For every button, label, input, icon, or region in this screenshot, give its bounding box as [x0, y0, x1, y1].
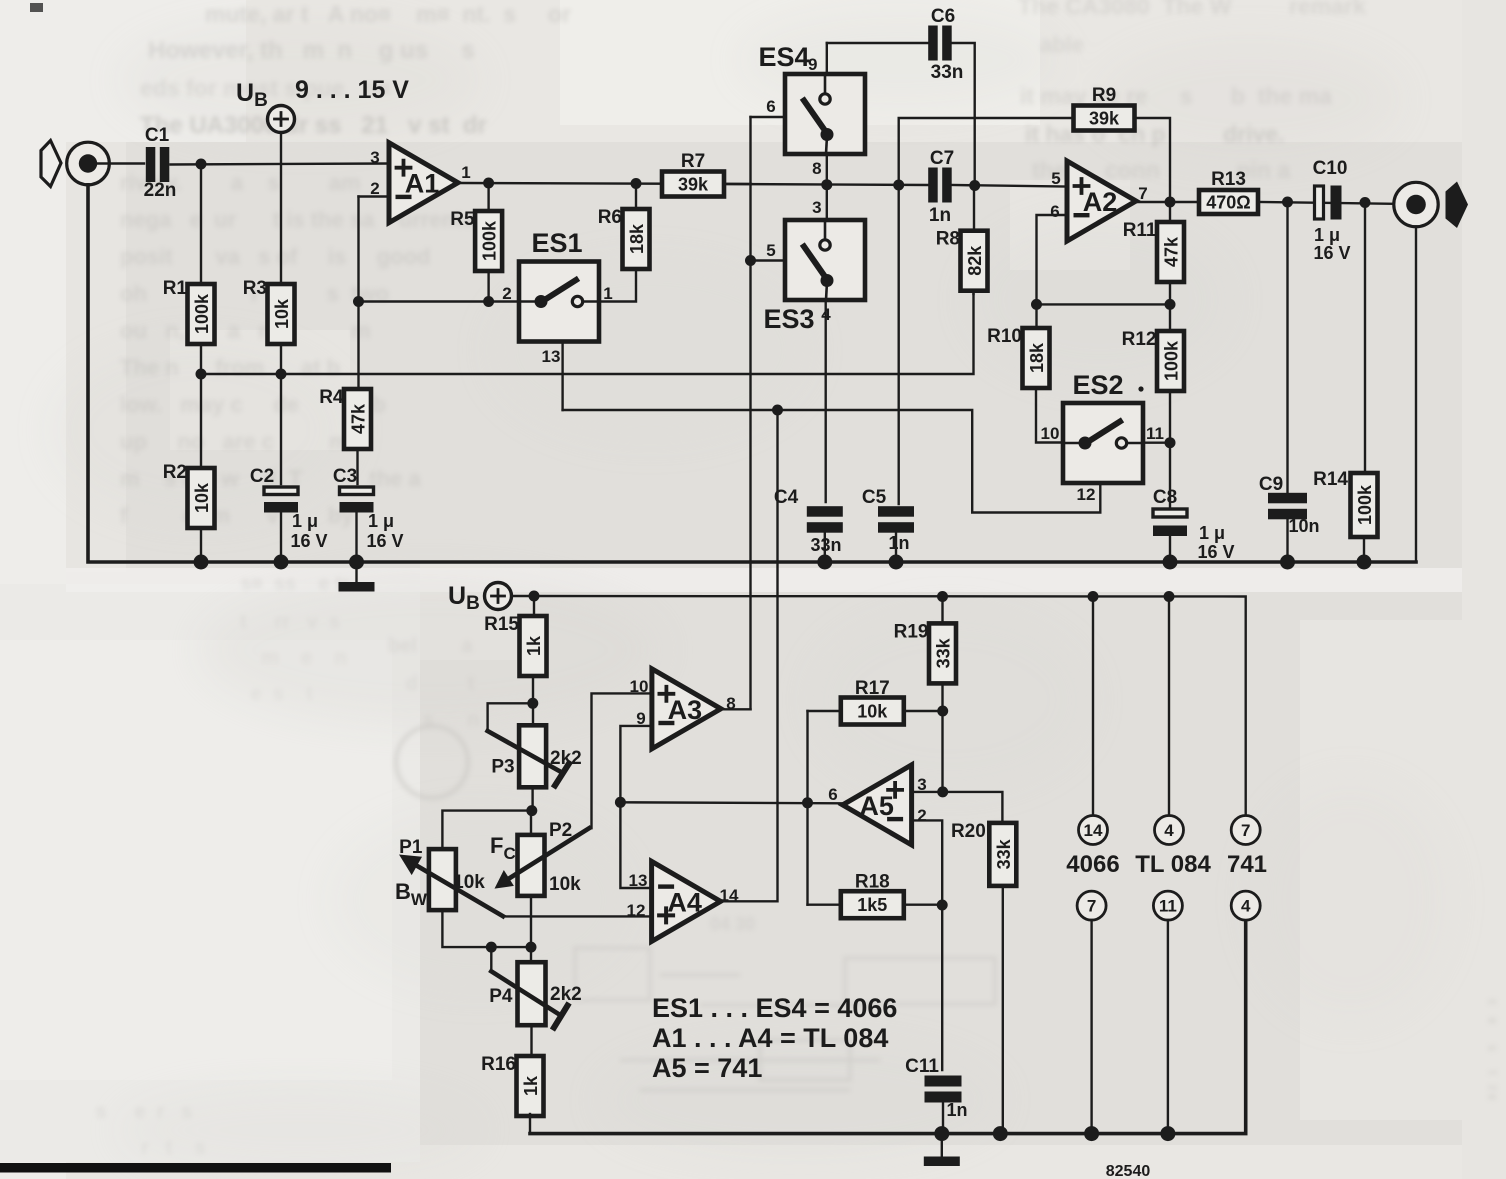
svg-text:nega e ur t is the sa: nega e ur t is the sa urrents — [120, 207, 475, 232]
svg-text:9: 9 — [808, 55, 817, 74]
junction rail x=1170 — [1163, 555, 1178, 570]
svg-text:47k: 47k — [1162, 236, 1182, 267]
wire C9 branch down — [1286, 202, 1288, 493]
wire ES4 pin8 to ES3 pin3 — [826, 154, 828, 220]
wire R10 to ES2 pin10 — [1036, 388, 1063, 443]
wire A3 pin9 down to A4 pin13 — [620, 726, 652, 888]
input connector J1 — [67, 142, 110, 185]
wire R9 left branch — [899, 118, 1073, 185]
wire R18 right — [904, 904, 942, 906]
wire R14 to rail — [1363, 537, 1365, 562]
node P3-P2-P1 junction — [526, 805, 537, 816]
potentiometer P1 — [399, 837, 456, 910]
svg-text:7: 7 — [1087, 897, 1096, 916]
svg-text:R1: R1 — [163, 278, 188, 299]
wire node to R8 — [973, 186, 975, 231]
node R11-R12 junction — [1165, 299, 1176, 310]
svg-text:33n: 33n — [931, 62, 964, 83]
supply UB top — [268, 106, 295, 133]
svg-text:13: 13 — [542, 347, 561, 366]
wire A1 output to R7 and vertical bus — [458, 183, 751, 184]
wire R6 bottom to ES1 pin1 — [599, 269, 636, 302]
resistor R9 — [1074, 85, 1135, 131]
junction rail x=281 — [274, 555, 289, 570]
wire vertical bus A3out-R7-ES4-ES3 — [749, 117, 751, 709]
node R8 top junction — [969, 180, 980, 191]
potentiometer P3 — [491, 725, 546, 787]
svg-text:TL 084: TL 084 — [1135, 851, 1211, 878]
svg-text:A5: A5 — [859, 791, 894, 821]
svg-text:6: 6 — [828, 785, 837, 804]
wire R5 bottom stub — [487, 271, 489, 302]
svg-text:R9: R9 — [1092, 85, 1116, 106]
wire P3 to junction — [531, 787, 533, 810]
svg-text:10k: 10k — [192, 482, 212, 513]
svg-text:18k: 18k — [1027, 342, 1047, 373]
resistor R15 — [484, 614, 546, 676]
wire A3 pin10 to P2 wiper — [592, 693, 652, 828]
wire A3 pin9 node to A5 pin6 — [620, 802, 842, 803]
svg-text:R17: R17 — [855, 678, 890, 699]
input arrow — [41, 141, 61, 187]
svg-text:11: 11 — [1146, 424, 1164, 443]
page rule bar bottom left — [0, 1163, 391, 1173]
svg-text:10k: 10k — [549, 874, 581, 895]
wire C7 to A2 pin5 — [952, 185, 1068, 187]
wire TL084 pin11 to rail — [1167, 920, 1169, 1134]
resistor R20 — [951, 821, 1016, 886]
wire out node to R11 — [1169, 202, 1171, 222]
svg-text:A1 . . . A4 = TL 084: A1 . . . A4 = TL 084 — [652, 1023, 888, 1053]
capacitor C4 — [807, 506, 843, 533]
wire R17 to R19 line — [904, 710, 943, 712]
svg-text:C3: C3 — [333, 466, 357, 487]
svg-text:33k: 33k — [934, 637, 954, 668]
svg-text:1k5: 1k5 — [857, 895, 887, 915]
svg-text:A4: A4 — [667, 887, 702, 917]
wire 4066 pin7 to rail — [1090, 920, 1092, 1134]
wire R13 to output connector — [1258, 202, 1410, 204]
analog switch ES2 — [1063, 403, 1143, 483]
svg-text:2k2: 2k2 — [550, 984, 582, 1005]
node 4066 pin14 top — [1088, 591, 1099, 602]
wire R5 top stub — [487, 183, 489, 211]
wire A5 pin3 — [912, 791, 943, 793]
svg-text:4066: 4066 — [1066, 851, 1119, 878]
wire C1 to A1 pin3 — [171, 164, 390, 165]
svg-text:The UA­3000 dr ss 21 v st: The UA­3000 dr ss 21 v st dr — [140, 112, 507, 139]
node R5 bottom junction — [483, 296, 494, 307]
resistor R17 — [841, 678, 904, 725]
resistor R12 — [1122, 329, 1184, 391]
wire input to C1 — [91, 162, 144, 164]
potentiometer P2 — [518, 820, 573, 896]
svg-text:R16: R16 — [481, 1054, 516, 1075]
capacitor C5 — [878, 506, 914, 533]
wire bias rail to R8 bottom — [201, 294, 974, 374]
svg-text:10n: 10n — [1288, 516, 1319, 536]
svg-text:R8: R8 — [936, 229, 960, 250]
wire rail to bottom ground — [941, 1134, 943, 1156]
node R6 top junction — [631, 178, 642, 189]
resistor R19 — [894, 621, 956, 683]
wire to A4 pin12 — [504, 915, 652, 917]
svg-text:R2: R2 — [163, 462, 187, 483]
svg-text:ES4: ES4 — [758, 42, 809, 72]
capacitor C7 — [928, 168, 952, 203]
svg-text:16 V: 16 V — [1313, 243, 1350, 263]
node A2 output junction — [1165, 197, 1176, 208]
pin 4 of TL084 — [1155, 816, 1184, 845]
svg-text:R18: R18 — [855, 872, 890, 893]
opamp A3 — [652, 669, 721, 749]
wire C3 to rail — [355, 510, 357, 562]
svg-text:R7: R7 — [681, 151, 705, 172]
svg-text:1 μ: 1 μ — [1199, 523, 1225, 543]
svg-text:10k: 10k — [857, 702, 888, 722]
node TL084 pin4 top — [1164, 591, 1175, 602]
wire pin2 node down to C11 — [941, 905, 943, 1070]
resistor R7 — [662, 151, 724, 197]
svg-text:2: 2 — [370, 179, 379, 198]
wire to R18 — [808, 904, 842, 906]
svg-text:R3: R3 — [243, 278, 267, 299]
svg-text:2: 2 — [502, 284, 511, 303]
svg-text:8: 8 — [812, 159, 821, 178]
wire R7 out to C7 — [724, 184, 929, 185]
opamp A5 — [843, 765, 912, 845]
svg-text:1n: 1n — [929, 205, 951, 226]
node R19 top — [937, 591, 948, 602]
svg-text:R19: R19 — [894, 621, 929, 642]
svg-text:C8: C8 — [1153, 487, 1177, 508]
svg-text:5: 5 — [1051, 169, 1060, 188]
wire R6 top stub — [635, 184, 637, 210]
svg-text:1n: 1n — [946, 1100, 967, 1120]
wire R2 to ground rail — [200, 528, 202, 562]
svg-text:10: 10 — [1041, 424, 1060, 443]
svg-text:16 V: 16 V — [1197, 542, 1234, 562]
node R1-R2 junction — [196, 369, 207, 380]
svg-text:10k: 10k — [272, 298, 292, 329]
svg-text:R10: R10 — [987, 326, 1022, 347]
svg-text:8 2 1 5 8 3: 8 2 1 5 8 3 — [1487, 978, 1499, 1100]
svg-text:100k: 100k — [192, 293, 212, 334]
svg-text:R6: R6 — [598, 207, 622, 228]
wire C6 right to A2 input node — [952, 43, 975, 185]
analog switch ES3 — [785, 220, 865, 300]
wire junction to P1 — [442, 811, 531, 849]
svg-text:P4: P4 — [489, 986, 513, 1007]
wire R3 to C2 — [280, 344, 282, 484]
capacitor C11 — [925, 1076, 962, 1103]
svg-text:1 μ: 1 μ — [368, 511, 394, 531]
wire bottom ground rail — [530, 921, 1246, 1134]
wire output connector down to rail — [1415, 227, 1417, 563]
svg-text:100k: 100k — [1162, 340, 1182, 381]
svg-text:4: 4 — [1164, 821, 1174, 840]
wire C2 to rail — [280, 510, 282, 562]
svg-text:3: 3 — [370, 148, 379, 167]
svg-text:6: 6 — [766, 97, 775, 116]
wire UB to R15 — [533, 596, 534, 616]
opamp A1 — [389, 143, 458, 223]
wire UB rail lower section — [512, 596, 1246, 816]
svg-text:ES1 . . . ES4 = 4066: ES1 . . . ES4 = 4066 — [652, 993, 897, 1023]
wire ES4 pin9 stub — [826, 43, 828, 74]
svg-text:C11: C11 — [905, 1056, 939, 1077]
capacitor C6 — [928, 26, 952, 61]
resistor R14 — [1313, 469, 1377, 537]
wire C5 to rail — [895, 531, 897, 562]
svg-text:16 V: 16 V — [290, 531, 327, 551]
pin 14 of 4066 — [1079, 816, 1108, 845]
wire bus to ES3 pin5 — [751, 259, 786, 261]
capacitor C2 — [264, 487, 298, 513]
svg-text:33k: 33k — [994, 838, 1014, 869]
output arrow — [1446, 182, 1469, 229]
ground symbol top section — [339, 582, 375, 592]
wire R19 to pin3 node — [941, 683, 943, 792]
svg-text:04 30: 04 30 — [700, 914, 770, 934]
resistor R5 — [450, 209, 502, 271]
svg-text:R4: R4 — [319, 387, 344, 408]
wire R12 to C8 — [1169, 391, 1171, 508]
junction rail x=824.8 — [817, 555, 832, 570]
svg-text:16 V: 16 V — [366, 531, 403, 551]
resistor R11 — [1123, 220, 1184, 282]
svg-text:5: 5 — [766, 241, 775, 260]
wire A1 pin2 down to R4 — [357, 197, 359, 390]
junction rail x=356.5 — [349, 555, 364, 570]
svg-text:470Ω: 470Ω — [1206, 193, 1250, 213]
wire ES1 pin13 to ES2 pin12 — [563, 410, 1101, 513]
analog switch ES1 — [519, 262, 599, 342]
node R18 pin2 junction — [937, 900, 948, 911]
svg-text:C7: C7 — [930, 148, 954, 169]
svg-text:39k: 39k — [678, 175, 709, 195]
wire UB to R3 — [280, 133, 282, 285]
node ES2 pin11 junction — [1165, 437, 1176, 448]
wire UB rail to R19 — [941, 597, 943, 624]
opamp A2 — [1067, 161, 1136, 241]
svg-text:2: 2 — [917, 806, 926, 825]
svg-text:9 . . . 15 V: 9 . . . 15 V — [295, 76, 409, 104]
svg-text:C5: C5 — [862, 487, 887, 508]
junction rail x=896 — [889, 555, 904, 570]
svg-text:R15: R15 — [484, 614, 519, 635]
svg-text:82k: 82k — [965, 245, 985, 276]
output connector J2 — [1394, 182, 1438, 226]
svg-text:1: 1 — [603, 284, 612, 303]
capacitor C9 — [1268, 493, 1307, 520]
svg-text:it has o ch p drive.: it has o ch p drive. — [1025, 121, 1284, 147]
wire R20 to bottom rail — [1002, 886, 1004, 1134]
wire 4066 pin14 drop — [1092, 597, 1094, 816]
wire A2 pin6 loop down to R10 — [1037, 215, 1068, 328]
svg-text:ES2: ES2 — [1072, 370, 1123, 400]
svg-text:The CA­3080 The W rem: The CA­3080 The W remark — [1018, 0, 1366, 19]
svg-text:R5: R5 — [450, 209, 475, 230]
svg-text:1: 1 — [461, 163, 470, 182]
wire A4 output up to ES1 pin13 line — [719, 410, 778, 901]
svg-text:R14: R14 — [1313, 469, 1348, 490]
svg-text:P2: P2 — [549, 820, 572, 841]
wire ES1 pin13 down — [561, 342, 563, 411]
wire ES2 pin11 to R12 line — [1143, 442, 1170, 444]
svg-text:47k: 47k — [349, 403, 369, 434]
svg-text:A3: A3 — [668, 695, 703, 725]
resistor R13 — [1199, 169, 1258, 214]
junction rail x=1287.5 — [1280, 555, 1295, 570]
node A5 pin3 junction — [937, 786, 948, 797]
svg-text:C1: C1 — [145, 125, 170, 146]
svg-text:f or m v b: f or m v by — [120, 503, 366, 528]
node R17 right junction — [937, 706, 948, 717]
junction bottom rail x=1167.9 — [1160, 1126, 1175, 1141]
pin 7 of 741 — [1231, 816, 1260, 845]
svg-text:11: 11 — [1159, 897, 1177, 916]
wire feedback to ES1 pin2 — [359, 300, 520, 302]
node bus to ES3 pin5 — [745, 255, 756, 266]
node R17-R18 left junction — [802, 797, 813, 808]
wire R11 to R12 — [1169, 282, 1171, 331]
wire P1 bottom to P4 top — [442, 910, 531, 947]
svg-text:1k: 1k — [524, 635, 544, 656]
svg-text:1 μ: 1 μ — [1314, 225, 1340, 245]
node C9 branch — [1282, 197, 1293, 208]
wire C9 to rail — [1286, 519, 1288, 563]
junction bottom rail x=941.8 — [934, 1126, 949, 1141]
svg-text:R12: R12 — [1122, 329, 1157, 350]
svg-text:82540: 82540 — [1106, 1163, 1151, 1179]
node P4 top junction — [526, 942, 537, 953]
wire C7 node down to C5 — [898, 185, 900, 504]
node P4 wiper junction — [486, 942, 497, 953]
wire R15 to P3 — [532, 676, 534, 725]
svg-text:18k: 18k — [627, 223, 647, 254]
wire ES3 pin4 down to C4 — [825, 300, 827, 502]
resistor R16 — [481, 1054, 543, 1116]
svg-text:P3: P3 — [491, 756, 514, 777]
resistor R4 — [319, 387, 371, 449]
capacitor C10 — [1315, 186, 1342, 220]
node pin9-pin13-A5 junction — [615, 797, 626, 808]
pin 4 of 741 — [1231, 891, 1260, 920]
svg-text:100k: 100k — [1355, 484, 1375, 525]
svg-text:ES3: ES3 — [763, 304, 814, 334]
junction rail x=1364 — [1357, 555, 1372, 570]
ground symbol bottom — [924, 1157, 960, 1167]
wire pin3 node to R20 — [943, 792, 1003, 823]
wire R9 right to A2 output — [1135, 118, 1171, 202]
svg-text:12: 12 — [1077, 485, 1096, 504]
node pin13 line to A4 output branch — [772, 405, 783, 416]
svg-text:A1: A1 — [405, 169, 440, 199]
wire junction to P2 top — [530, 811, 532, 835]
node R9 branch junction — [893, 180, 904, 191]
svg-text:1 μ: 1 μ — [292, 511, 318, 531]
node C10-R14 branch — [1360, 197, 1371, 208]
resistor R2 — [163, 462, 215, 528]
junction rail x=201 — [194, 555, 209, 570]
node A2 pin6 R10 junction — [1031, 299, 1042, 310]
supply UB bottom — [485, 583, 512, 610]
wire ES4 pin9 to C6 — [827, 42, 929, 44]
svg-text:C2: C2 — [250, 466, 274, 487]
svg-text:10k: 10k — [453, 872, 485, 893]
wire R14 branch down — [1364, 203, 1366, 474]
resistor R10 — [987, 326, 1049, 388]
svg-text:it may be re s b the: it may be re s b the ma — [1020, 83, 1351, 109]
resistor R1 — [163, 278, 215, 344]
wire R17-R18 left vertical — [806, 711, 808, 905]
wire pin6 node to R11-R12 node — [1037, 303, 1171, 305]
node R15 top — [529, 591, 540, 602]
junction bottom rail x=1091.6 — [1084, 1126, 1099, 1141]
capacitor C8 — [1153, 509, 1187, 536]
svg-text:A5 = 741: A5 = 741 — [652, 1053, 762, 1083]
analog switch ES4 — [785, 74, 865, 154]
svg-text:1k: 1k — [521, 1075, 541, 1096]
wire P2 bottom through pin12 node to P4 — [530, 896, 532, 962]
node A1 out R5 junction — [483, 178, 494, 189]
wire C11 to bottom rail — [942, 1095, 944, 1134]
resistor R18 — [841, 872, 904, 919]
svg-text:12: 12 — [627, 901, 646, 920]
wire C4 to rail — [824, 531, 826, 562]
capacitor C3 — [340, 487, 374, 513]
svg-text:ou n, a n: ou n, a n m — [120, 318, 377, 343]
node ES4 pin8 junction — [821, 179, 832, 190]
svg-text:ES1: ES1 — [531, 228, 582, 258]
pin 11 of TL084 — [1153, 891, 1182, 920]
svg-text:However, th m n g us: However, th m n g us s — [148, 37, 475, 64]
svg-text:13: 13 — [629, 871, 648, 890]
node A1 feedback junction — [353, 296, 364, 307]
node R3-C2 junction — [276, 369, 287, 380]
svg-text:1n: 1n — [888, 533, 909, 553]
junction bottom rail x=1000.3 — [993, 1126, 1008, 1141]
svg-text:4: 4 — [1241, 897, 1251, 916]
wire junction to R1 — [200, 164, 202, 284]
resistor R8 — [936, 229, 988, 291]
svg-text:39k: 39k — [1089, 109, 1120, 129]
wire rail to ground stub — [355, 562, 357, 582]
wire R16 to bottom rail — [529, 1114, 531, 1134]
svg-text:R20: R20 — [951, 821, 986, 842]
svg-text:able: able — [1040, 32, 1145, 57]
wire R8 bottom stub — [972, 291, 974, 294]
wire A3 output to vertical bus — [721, 708, 751, 710]
wire main ground rail — [88, 185, 1416, 562]
resistor R3 — [243, 278, 295, 344]
svg-text:741: 741 — [1227, 851, 1267, 878]
svg-text:R13: R13 — [1211, 169, 1246, 190]
svg-text:3: 3 — [812, 198, 821, 217]
svg-text:22n: 22n — [144, 180, 177, 201]
wire C8 to rail — [1169, 536, 1171, 562]
wire P4 to R16 — [530, 1025, 532, 1056]
resistor R6 — [598, 207, 650, 269]
wire A5 pin2 down to R18 node — [912, 820, 943, 905]
svg-text:14: 14 — [1084, 821, 1103, 840]
svg-text:7: 7 — [1241, 821, 1250, 840]
wire to R17 — [808, 710, 842, 712]
svg-text:7: 7 — [1138, 184, 1147, 203]
svg-text:C10: C10 — [1313, 158, 1348, 179]
pin 7 of 4066 — [1077, 891, 1106, 920]
